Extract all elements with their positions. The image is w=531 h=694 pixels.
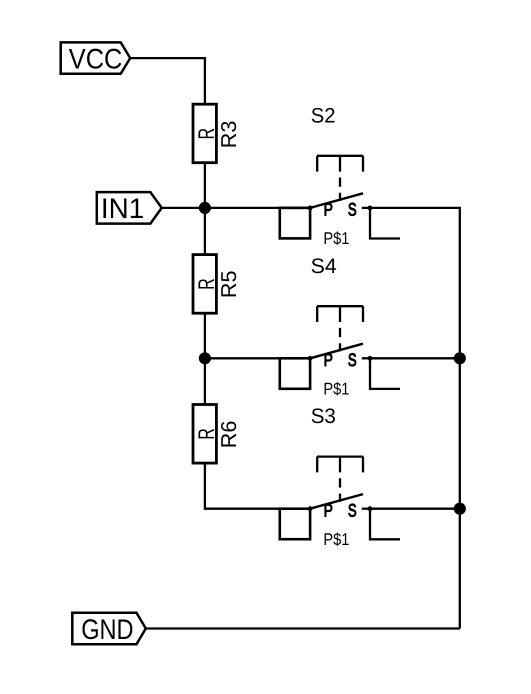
svg-text:R5: R5 [217,270,241,298]
svg-text:GND: GND [81,614,133,646]
svg-text:S3: S3 [311,405,336,428]
svg-text:R: R [194,278,219,290]
svg-text:S4: S4 [311,255,337,278]
svg-text:IN1: IN1 [101,193,144,225]
svg-text:R: R [194,128,219,140]
svg-text:R3: R3 [217,121,241,149]
svg-text:R6: R6 [217,421,241,449]
svg-text:R: R [194,428,219,440]
svg-text:S2: S2 [311,105,336,128]
svg-text:VCC: VCC [69,43,123,75]
